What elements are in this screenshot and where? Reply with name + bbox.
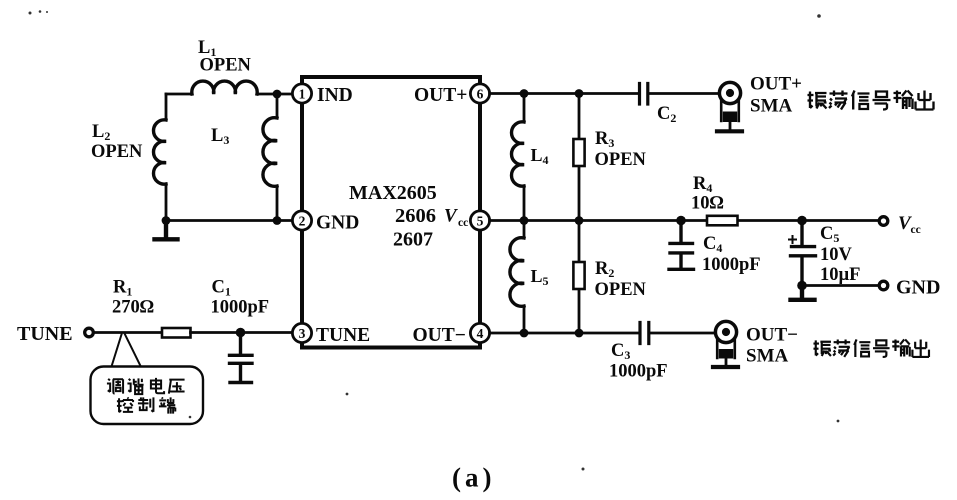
capacitor C2 series	[640, 84, 648, 105]
capacitor C5 electrolytic	[791, 221, 816, 286]
chinese label oscillator signal output (top)	[808, 91, 934, 110]
IC U1 MAX2605 box	[302, 77, 480, 348]
chinese label control terminal (callout line 2)	[117, 397, 175, 413]
terminal Vcc	[879, 217, 888, 226]
wire C1 node to pin3	[241, 331, 293, 334]
inductor L3	[263, 118, 277, 187]
svg-text:OPEN: OPEN	[91, 142, 143, 162]
svg-text:GND: GND	[896, 277, 940, 299]
wire C5 to GND terminal	[802, 284, 879, 287]
wire R2 branch	[578, 221, 581, 334]
wire IND loop top rail	[166, 93, 293, 96]
node L5 bottom junction	[520, 329, 529, 338]
polarity plus of C5	[789, 236, 796, 243]
resistor R1	[162, 328, 191, 338]
pin 4	[470, 323, 489, 342]
svg-text:10V: 10V	[820, 245, 853, 265]
svg-text:MAX2605: MAX2605	[349, 182, 437, 204]
wire OUT- rail	[490, 332, 714, 335]
chinese label oscillator signal output (bottom)	[813, 339, 929, 356]
pin 2	[292, 211, 311, 230]
node L2-GND rail junction	[162, 216, 171, 225]
wire Vcc rail	[490, 219, 879, 222]
svg-text:6: 6	[477, 87, 484, 102]
svg-text:cc: cc	[911, 224, 921, 236]
svg-text:GND: GND	[316, 213, 359, 234]
svg-text:3: 3	[299, 326, 306, 341]
callout box tuning voltage control	[91, 367, 204, 425]
svg-text:OUT−: OUT−	[746, 325, 798, 346]
pin 1	[292, 84, 311, 103]
svg-text:1000pF: 1000pF	[609, 362, 668, 382]
svg-text:1000pF: 1000pF	[702, 255, 761, 275]
node L4 top junction	[520, 89, 529, 98]
svg-text:V: V	[444, 206, 458, 227]
svg-text:(a): (a)	[452, 463, 495, 493]
wire L4 branch	[523, 94, 526, 221]
terminal GND	[879, 281, 888, 290]
wire GND left rail	[166, 219, 293, 222]
svg-text:2606: 2606	[395, 205, 436, 227]
svg-text:270Ω: 270Ω	[112, 298, 154, 318]
pin 3	[292, 323, 311, 342]
svg-text:SMA: SMA	[746, 346, 789, 367]
svg-text:1000pF: 1000pF	[211, 298, 270, 318]
node R3 bottom junction	[575, 216, 584, 225]
inductor L2	[153, 120, 166, 184]
node TUNE-C1 junction	[236, 328, 246, 338]
svg-text:5: 5	[477, 214, 484, 229]
inductor L4	[511, 122, 524, 186]
svg-text:OPEN: OPEN	[200, 56, 252, 76]
svg-text:OPEN: OPEN	[595, 280, 647, 300]
pin 6	[470, 84, 489, 103]
connector SMA OUT-	[713, 321, 738, 367]
svg-text:IND: IND	[317, 85, 353, 106]
wire left branch vertical	[165, 94, 168, 221]
svg-text:OPEN: OPEN	[595, 150, 647, 170]
wire OUT+ rail	[490, 92, 718, 95]
capacitor C3 series	[640, 323, 649, 344]
connector SMA OUT+	[717, 82, 742, 131]
svg-text:1: 1	[299, 87, 306, 102]
svg-text:OUT+: OUT+	[414, 85, 467, 106]
ground below left rail	[155, 221, 178, 240]
resistor R3	[573, 139, 584, 166]
wire R3 branch	[578, 94, 581, 221]
node L3-GND rail junction	[273, 216, 282, 225]
chinese label tuning voltage (callout line 1)	[107, 378, 185, 394]
svg-text:TUNE: TUNE	[17, 323, 73, 345]
callout pointer	[112, 335, 141, 367]
resistor R4	[707, 216, 738, 226]
wire L5 branch	[523, 221, 526, 334]
scan speck marks	[29, 10, 840, 470]
node L1-L3-IND junction	[273, 90, 282, 99]
capacitor C1 to ground	[230, 333, 253, 383]
node C5 junction	[797, 216, 807, 226]
svg-text:10µF: 10µF	[820, 265, 860, 285]
svg-text:TUNE: TUNE	[316, 325, 370, 346]
node R2 bottom junction	[575, 329, 584, 338]
svg-text:2: 2	[299, 214, 306, 229]
wire R1 to C1 node	[191, 331, 241, 334]
svg-text:10Ω: 10Ω	[691, 194, 724, 214]
svg-text:2607: 2607	[393, 229, 433, 251]
pin 5	[470, 211, 489, 230]
inductor L1	[192, 81, 257, 94]
svg-text:OUT+: OUT+	[750, 74, 802, 95]
resistor R2	[573, 262, 584, 289]
node R3 top junction	[575, 89, 584, 98]
wire TUNE input to R1	[94, 331, 162, 334]
node L4 bottom junction	[520, 216, 529, 225]
wire L3 branch vertical	[276, 94, 279, 221]
svg-text:SMA: SMA	[750, 96, 793, 117]
svg-text:4: 4	[477, 326, 484, 341]
inductor L5	[510, 238, 524, 307]
svg-text:OUT−: OUT−	[413, 325, 466, 346]
node C4 junction	[676, 216, 686, 226]
capacitor C4 to ground	[669, 221, 694, 270]
ground below C5	[791, 286, 815, 300]
terminal TUNE input	[85, 328, 94, 337]
node C5 ground junction	[797, 281, 807, 291]
svg-text:cc: cc	[458, 217, 468, 229]
